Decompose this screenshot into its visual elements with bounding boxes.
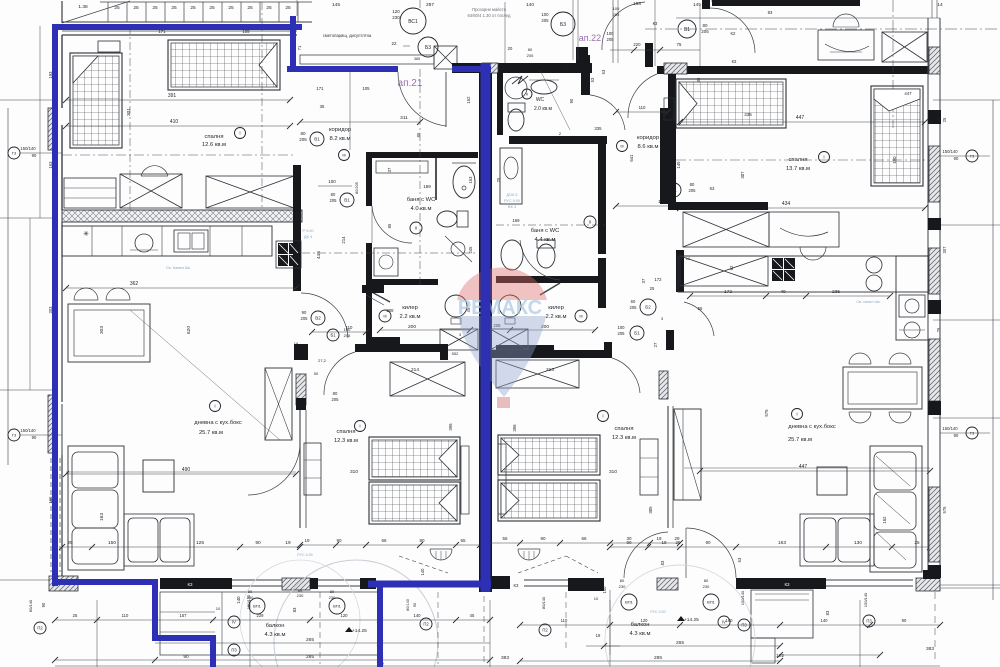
kitchen sink	[174, 230, 208, 252]
top right chair	[833, 14, 859, 27]
svg-text:310: 310	[609, 469, 617, 475]
svg-text:4.0 кв.м: 4.0 кв.м	[411, 206, 432, 212]
svg-text:баня с WC: баня с WC	[407, 197, 436, 203]
bedroom1 wardrobe X	[206, 176, 294, 208]
svg-text:2.2 кв.м: 2.2 кв.м	[400, 314, 421, 320]
svg-text:балкон: балкон	[266, 623, 285, 629]
svg-text:ВП1: ВП1	[707, 599, 716, 604]
svg-text:311: 311	[400, 115, 408, 121]
wall bottom bedroom2 block	[310, 578, 318, 589]
dim row above bottom walls	[55, 619, 490, 621]
svg-text:27: 27	[653, 342, 658, 347]
svg-text:383: 383	[501, 655, 509, 661]
svg-text:205: 205	[701, 29, 709, 34]
bedroom4 bottom wall piers	[490, 576, 510, 589]
kitchen22 right column counter	[896, 256, 928, 340]
svg-text:10: 10	[594, 596, 599, 601]
killer walls	[366, 285, 372, 343]
svg-text:391: 391	[168, 93, 177, 99]
svg-text:285: 285	[654, 655, 662, 661]
living22 bottom window band	[826, 579, 913, 581]
svg-text:П2: П2	[542, 628, 548, 633]
svg-text:230: 230	[329, 595, 336, 600]
svg-text:641: 641	[629, 154, 634, 162]
kitchen22 counter	[678, 256, 928, 292]
bathroom washing machine	[374, 248, 398, 276]
corner block	[923, 570, 940, 579]
svg-text:80/205: 80/205	[355, 182, 359, 194]
bedroom2 bed1	[369, 437, 460, 480]
killer22 dim 200	[510, 329, 595, 331]
svg-text:Б1: Б1	[330, 333, 336, 338]
svg-text:В1: В1	[684, 27, 690, 33]
svg-text:447: 447	[799, 464, 808, 470]
balcony22 dims	[604, 645, 780, 647]
svg-text:коридор: коридор	[329, 127, 351, 133]
bedroom1 dim line 391	[66, 99, 290, 101]
living22 dining chairs top	[849, 353, 871, 364]
window hatch left wall lower	[48, 395, 57, 453]
wall stub right of entry	[645, 43, 653, 67]
bedroom4 radiator	[518, 549, 540, 560]
svg-text:71: 71	[297, 45, 302, 50]
svg-text:150: 150	[108, 540, 116, 546]
svg-text:25: 25	[914, 540, 920, 545]
dim verticals left rooms	[39, 26, 41, 218]
kitchen counter	[62, 226, 272, 256]
living22 dim row	[610, 546, 930, 548]
watermark balloon blue bottom	[458, 316, 546, 397]
svg-text:265: 265	[676, 640, 684, 646]
svg-text:ВК 4: ВК 4	[508, 205, 516, 209]
svg-text:спалня: спалня	[615, 426, 634, 432]
bedroom3 wardrobe X bottom	[683, 212, 769, 247]
svg-text:РУС 9.00: РУС 9.00	[504, 199, 520, 203]
bedroom1 bed horizontal	[168, 40, 280, 90]
corridor circle B1a	[310, 132, 324, 146]
svg-text:РУС 4.00: РУС 4.00	[650, 610, 665, 614]
svg-text:303: 303	[99, 326, 105, 334]
axis dash top right	[645, 28, 1000, 30]
living22 chairs bottom	[849, 412, 871, 423]
blue left wall	[52, 24, 58, 586]
bedroom2 dim row bottom	[300, 544, 480, 546]
svg-text:83: 83	[768, 10, 773, 15]
svg-text:157: 157	[180, 613, 188, 618]
bath44 toilet	[537, 244, 555, 268]
svg-text:120: 120	[392, 9, 400, 14]
wall bottom living	[160, 578, 232, 589]
svg-text:К3: К3	[732, 59, 737, 64]
living22 tall cabinet	[674, 409, 701, 500]
circle B2/B1 kitchen side	[640, 299, 656, 315]
svg-text:140: 140	[414, 613, 422, 618]
svg-text:335: 335	[744, 112, 752, 117]
killer22 broom	[540, 283, 560, 295]
bedroom4 beds	[498, 435, 600, 475]
svg-text:434: 434	[782, 201, 791, 207]
svg-text:П3: П3	[231, 648, 237, 653]
window hatch left wall upper	[48, 108, 57, 150]
svg-text:19: 19	[294, 341, 299, 346]
svg-text:305: 305	[648, 506, 653, 514]
kitchen hob circle	[135, 234, 153, 252]
ap22 window hatch entry	[482, 63, 498, 73]
svg-text:19: 19	[596, 633, 601, 638]
staircase treads	[62, 1, 312, 23]
svg-text:66: 66	[381, 538, 387, 543]
svg-text:396: 396	[448, 423, 453, 431]
svg-text:20: 20	[508, 46, 513, 51]
svg-text:12.6 кв.м: 12.6 кв.м	[202, 142, 226, 148]
wc door arc	[590, 95, 625, 130]
svg-text:25: 25	[171, 5, 177, 11]
svg-text:150/140: 150/140	[20, 428, 36, 433]
wall bottom-left hatched block	[49, 576, 78, 591]
svg-text:45: 45	[470, 613, 475, 618]
party wall black	[479, 63, 492, 592]
svg-text:12.3 кв.м: 12.3 кв.м	[334, 438, 358, 444]
blue outline ap21 top	[52, 24, 302, 30]
bedroom2 wardrobe left	[304, 443, 321, 495]
blue wall y69 segment2	[452, 66, 491, 72]
svg-text:25: 25	[73, 613, 78, 618]
living22 dims	[700, 470, 930, 472]
axis dashed verticals	[572, 0, 574, 60]
svg-text:172: 172	[724, 289, 732, 295]
svg-text:ДОК 5: ДОК 5	[507, 193, 518, 197]
bedroom2 dashes	[399, 556, 448, 573]
svg-text:Св. Камен Шк: Св. Камен Шк	[166, 266, 191, 270]
bedroom4 window sill lines	[524, 579, 568, 581]
svg-text:205: 205	[541, 18, 549, 23]
bedroom3 desk bottom	[769, 212, 839, 247]
svg-text:ап.21: ап.21	[398, 78, 423, 89]
blue stub vertical	[290, 16, 296, 69]
svg-text:80: 80	[704, 578, 709, 583]
living tv cabinet	[265, 368, 292, 440]
bedroom1 chair	[141, 166, 168, 176]
svg-text:90: 90	[183, 654, 189, 660]
svg-text:85: 85	[387, 223, 392, 228]
svg-text:230: 230	[297, 593, 304, 598]
svg-text:90: 90	[954, 433, 959, 438]
svg-text:189: 189	[423, 184, 431, 189]
bedroom1 dim line 410	[66, 125, 290, 127]
svg-text:10: 10	[216, 606, 221, 611]
killer boiler circle	[445, 295, 467, 317]
svg-text:4.3 кв.м: 4.3 кв.м	[265, 632, 286, 638]
wall bedroom1/kitchen masonry	[62, 210, 302, 222]
svg-text:27,2: 27,2	[318, 358, 327, 363]
svg-text:25: 25	[247, 5, 253, 11]
svg-text:25: 25	[190, 5, 196, 11]
wall left inner face	[61, 35, 63, 108]
blue bottom left	[52, 579, 158, 585]
svg-text:В1: В1	[344, 198, 350, 203]
svg-text:205: 205	[299, 137, 307, 142]
svg-text:230: 230	[619, 584, 626, 589]
svg-text:ДК 4: ДК 4	[304, 235, 312, 239]
room circle bedroom1	[235, 128, 246, 139]
bedroom3 chair bottom	[800, 247, 826, 260]
svg-text:80: 80	[620, 578, 625, 583]
bathroom partition	[435, 158, 437, 200]
svg-text:362: 362	[130, 281, 139, 287]
svg-text:25: 25	[496, 177, 501, 182]
svg-text:110: 110	[122, 613, 129, 618]
living dim row bottom	[62, 546, 300, 548]
svg-text:2.0 кв.м: 2.0 кв.м	[534, 106, 553, 112]
svg-text:100: 100	[328, 179, 336, 184]
svg-text:63: 63	[710, 186, 715, 191]
svg-text:ВП1: ВП1	[333, 603, 342, 608]
svg-text:172: 172	[654, 277, 662, 282]
bathroom walls top	[366, 152, 478, 158]
svg-text:205: 205	[618, 331, 626, 336]
svg-text:163: 163	[778, 540, 786, 546]
svg-text:✳: ✳	[83, 230, 89, 238]
killer22 X cabinet	[490, 329, 528, 350]
living22 right wall	[927, 300, 929, 578]
svg-text:213: 213	[546, 367, 554, 373]
kitchen22 stove black	[772, 258, 795, 281]
bath44 wall bottom	[496, 276, 606, 283]
room diagonal light lines living	[130, 310, 280, 440]
bedroom3 right wall hatch blocks	[929, 47, 940, 74]
living sofa vertical	[68, 446, 124, 570]
svg-text:килер: килер	[548, 305, 564, 311]
wc toilet	[508, 109, 524, 131]
svg-text:I: I	[796, 412, 797, 417]
svg-text:150/140: 150/140	[942, 426, 958, 431]
svg-text:80/140: 80/140	[406, 599, 410, 611]
ap22 entry step wall	[576, 47, 588, 67]
svg-text:ВП1: ВП1	[625, 599, 634, 604]
bath44 door arc	[520, 240, 560, 280]
svg-text:Г3: Г3	[12, 150, 17, 155]
svg-text:80: 80	[300, 131, 306, 136]
svg-text:12: 12	[686, 256, 691, 261]
svg-text:4.4 кв.м: 4.4 кв.м	[535, 237, 556, 243]
living sofa horizontal cushions	[124, 514, 194, 566]
bedroom3 left wall	[668, 74, 676, 124]
svg-text:53: 53	[590, 77, 595, 82]
svg-text:25: 25	[266, 5, 272, 11]
svg-text:235: 235	[832, 289, 840, 295]
svg-text:110: 110	[561, 618, 568, 623]
svg-text:1.38: 1.38	[78, 4, 88, 10]
window hatch bottom balcony door	[282, 578, 310, 590]
svg-text:К2: К2	[731, 31, 737, 36]
svg-text:80: 80	[690, 182, 695, 187]
terrace door dashes left wall	[50, 458, 52, 572]
svg-text:100: 100	[541, 12, 549, 17]
living dining table	[68, 304, 150, 362]
svg-text:III: III	[342, 152, 345, 157]
bedroom1 top-left: bed vertical B	[70, 53, 122, 148]
balcony22 faint circle	[605, 565, 755, 667]
svg-text:200: 200	[408, 324, 416, 330]
svg-text:365: 365	[414, 57, 420, 61]
svg-text:80: 80	[333, 391, 338, 396]
svg-text:25: 25	[209, 5, 215, 11]
kitchen22 sink	[899, 295, 925, 317]
svg-text:килер: килер	[402, 305, 418, 311]
svg-text:55: 55	[502, 536, 508, 541]
svg-text:25: 25	[942, 117, 947, 122]
window band bottom left	[232, 579, 282, 581]
svg-text:90: 90	[302, 310, 307, 315]
svg-text:445: 445	[316, 251, 322, 259]
wall middle bedrooms top right	[490, 350, 612, 358]
svg-text:К3: К3	[187, 582, 193, 587]
living coffee table	[143, 460, 174, 492]
svg-text:14: 14	[937, 2, 943, 8]
svg-text:396: 396	[512, 424, 517, 432]
svg-text:13.7 кв.м: 13.7 кв.м	[786, 166, 810, 172]
kitchen22 wall band	[676, 250, 684, 292]
svg-text:80: 80	[248, 589, 253, 594]
svg-text:дневна с кух.бокс: дневна с кух.бокс	[194, 420, 242, 426]
svg-text:205: 205	[330, 198, 338, 203]
svg-text:90: 90	[954, 156, 959, 161]
svg-text:205: 205	[689, 188, 697, 193]
bedroom4 side rail	[498, 444, 506, 514]
party wall blue highlight	[481, 63, 491, 592]
svg-text:В1: В1	[314, 137, 320, 142]
svg-text:WC: WC	[536, 97, 545, 103]
living22 sofa vertical	[870, 446, 922, 572]
svg-text:150/140: 150/140	[863, 592, 868, 607]
blue wall y69 segment1	[287, 66, 398, 72]
svg-text:12.3 кв.м: 12.3 кв.м	[612, 435, 636, 441]
svg-text:160: 160	[726, 618, 734, 623]
axis dashed horizontals	[20, 152, 62, 154]
bathroom sink oval	[453, 166, 475, 198]
svg-text:149: 149	[676, 161, 681, 169]
svg-text:К3: К3	[784, 582, 790, 587]
svg-text:РУС 4.00: РУС 4.00	[297, 553, 312, 557]
svg-text:III: III	[579, 313, 582, 318]
svg-text:35: 35	[320, 104, 325, 109]
watermark balloon red top	[457, 268, 547, 408]
svg-text:130: 130	[854, 540, 862, 546]
entrance door ap21 arc	[398, 72, 446, 126]
svg-text:171: 171	[316, 86, 324, 91]
construction grid lines	[0, 99, 58, 101]
bedroom2 radiator	[430, 549, 452, 560]
svg-text:П2: П2	[37, 626, 43, 631]
svg-text:205: 205	[301, 316, 309, 321]
bedroom3 right wall outline	[927, 18, 929, 300]
blue balcony right side	[377, 582, 383, 667]
bedroom2 left wall	[299, 410, 301, 528]
blue balcony left down	[210, 635, 216, 667]
svg-text:дневна с кух.бокс: дневна с кух.бокс	[788, 424, 836, 430]
svg-text:В2: В2	[315, 316, 321, 321]
wc mirror flash	[512, 76, 528, 84]
killer dim 200	[380, 329, 470, 331]
svg-text:150/140: 150/140	[942, 149, 958, 154]
bedroom2 bed2	[369, 482, 460, 524]
svg-text:4.3 кв.м: 4.3 кв.м	[630, 631, 651, 637]
bedroom3 nightstand	[664, 98, 674, 120]
watermark basket	[497, 397, 510, 408]
svg-text:спалня: спалня	[205, 134, 224, 140]
svg-text:90: 90	[540, 536, 546, 541]
svg-text:25: 25	[936, 117, 941, 122]
bedroom1 desk2 with X	[120, 174, 182, 208]
kitchen22 wardrobe X	[680, 256, 768, 286]
corridor22 door arcs	[628, 74, 657, 118]
svg-text:120: 120	[341, 613, 349, 618]
ap22 entry door arc	[710, 8, 755, 53]
balcony22 slab	[751, 590, 813, 638]
svg-text:Б3: Б3	[425, 45, 431, 51]
projection dashed verticals bottom	[437, 592, 439, 664]
svg-text:120: 120	[641, 618, 649, 623]
svg-text:I: I	[239, 131, 240, 136]
bedroom3 bottom wall	[668, 202, 768, 210]
svg-text:205: 205	[613, 12, 620, 17]
svg-text:19: 19	[661, 540, 667, 545]
svg-text:I: I	[359, 424, 360, 429]
living22 dining table	[843, 367, 922, 409]
svg-text:447: 447	[796, 115, 805, 121]
svg-text:80: 80	[528, 47, 533, 52]
bathroom wall bottom	[366, 279, 438, 285]
svg-text:205: 205	[630, 305, 638, 310]
svg-text:162: 162	[882, 516, 887, 524]
balcony faint circle	[274, 560, 438, 667]
killer X cabinet	[440, 329, 478, 350]
svg-text:ВП1: ВП1	[253, 603, 262, 608]
svg-text:83: 83	[292, 607, 297, 612]
svg-text:Б3: Б3	[560, 22, 566, 28]
bedroom2 left wall window hatch	[296, 374, 306, 405]
svg-text:100: 100	[618, 325, 626, 330]
svg-text:410: 410	[170, 119, 179, 125]
svg-text:230: 230	[247, 595, 254, 600]
svg-text:2.2 кв.м: 2.2 кв.м	[546, 314, 567, 320]
svg-text:25: 25	[133, 5, 139, 11]
circle B1 top	[678, 20, 696, 38]
corridor circle B1b	[340, 193, 354, 207]
svg-text:РЕМАКС: РЕМАКС	[458, 297, 542, 319]
bedroom2 left wall top block	[294, 344, 308, 360]
living22 sofa horizontal	[800, 514, 874, 566]
svg-text:ап.22: ап.22	[579, 33, 601, 43]
kitchen22 door arc	[684, 302, 714, 336]
svg-text:8.6 кв.м: 8.6 кв.м	[638, 144, 659, 150]
wardrobe X band right 213	[496, 360, 579, 388]
svg-text:I: I	[823, 155, 824, 160]
svg-text:+14.25: +14.25	[352, 628, 367, 634]
svg-text:III: III	[620, 143, 623, 148]
wall kitchen right vertical	[293, 165, 301, 291]
wall top ap21	[62, 34, 297, 36]
svg-text:К3: К3	[514, 583, 520, 588]
entry shelf strip	[300, 55, 434, 64]
svg-text:90: 90	[32, 435, 37, 440]
bathroom wall left	[366, 158, 372, 206]
svg-text:55: 55	[460, 538, 466, 543]
top right wall pieces	[712, 0, 860, 6]
svg-text:297: 297	[426, 2, 434, 8]
top right wardrobe X	[882, 32, 927, 62]
bedroom2 left wall black piece	[296, 398, 306, 410]
